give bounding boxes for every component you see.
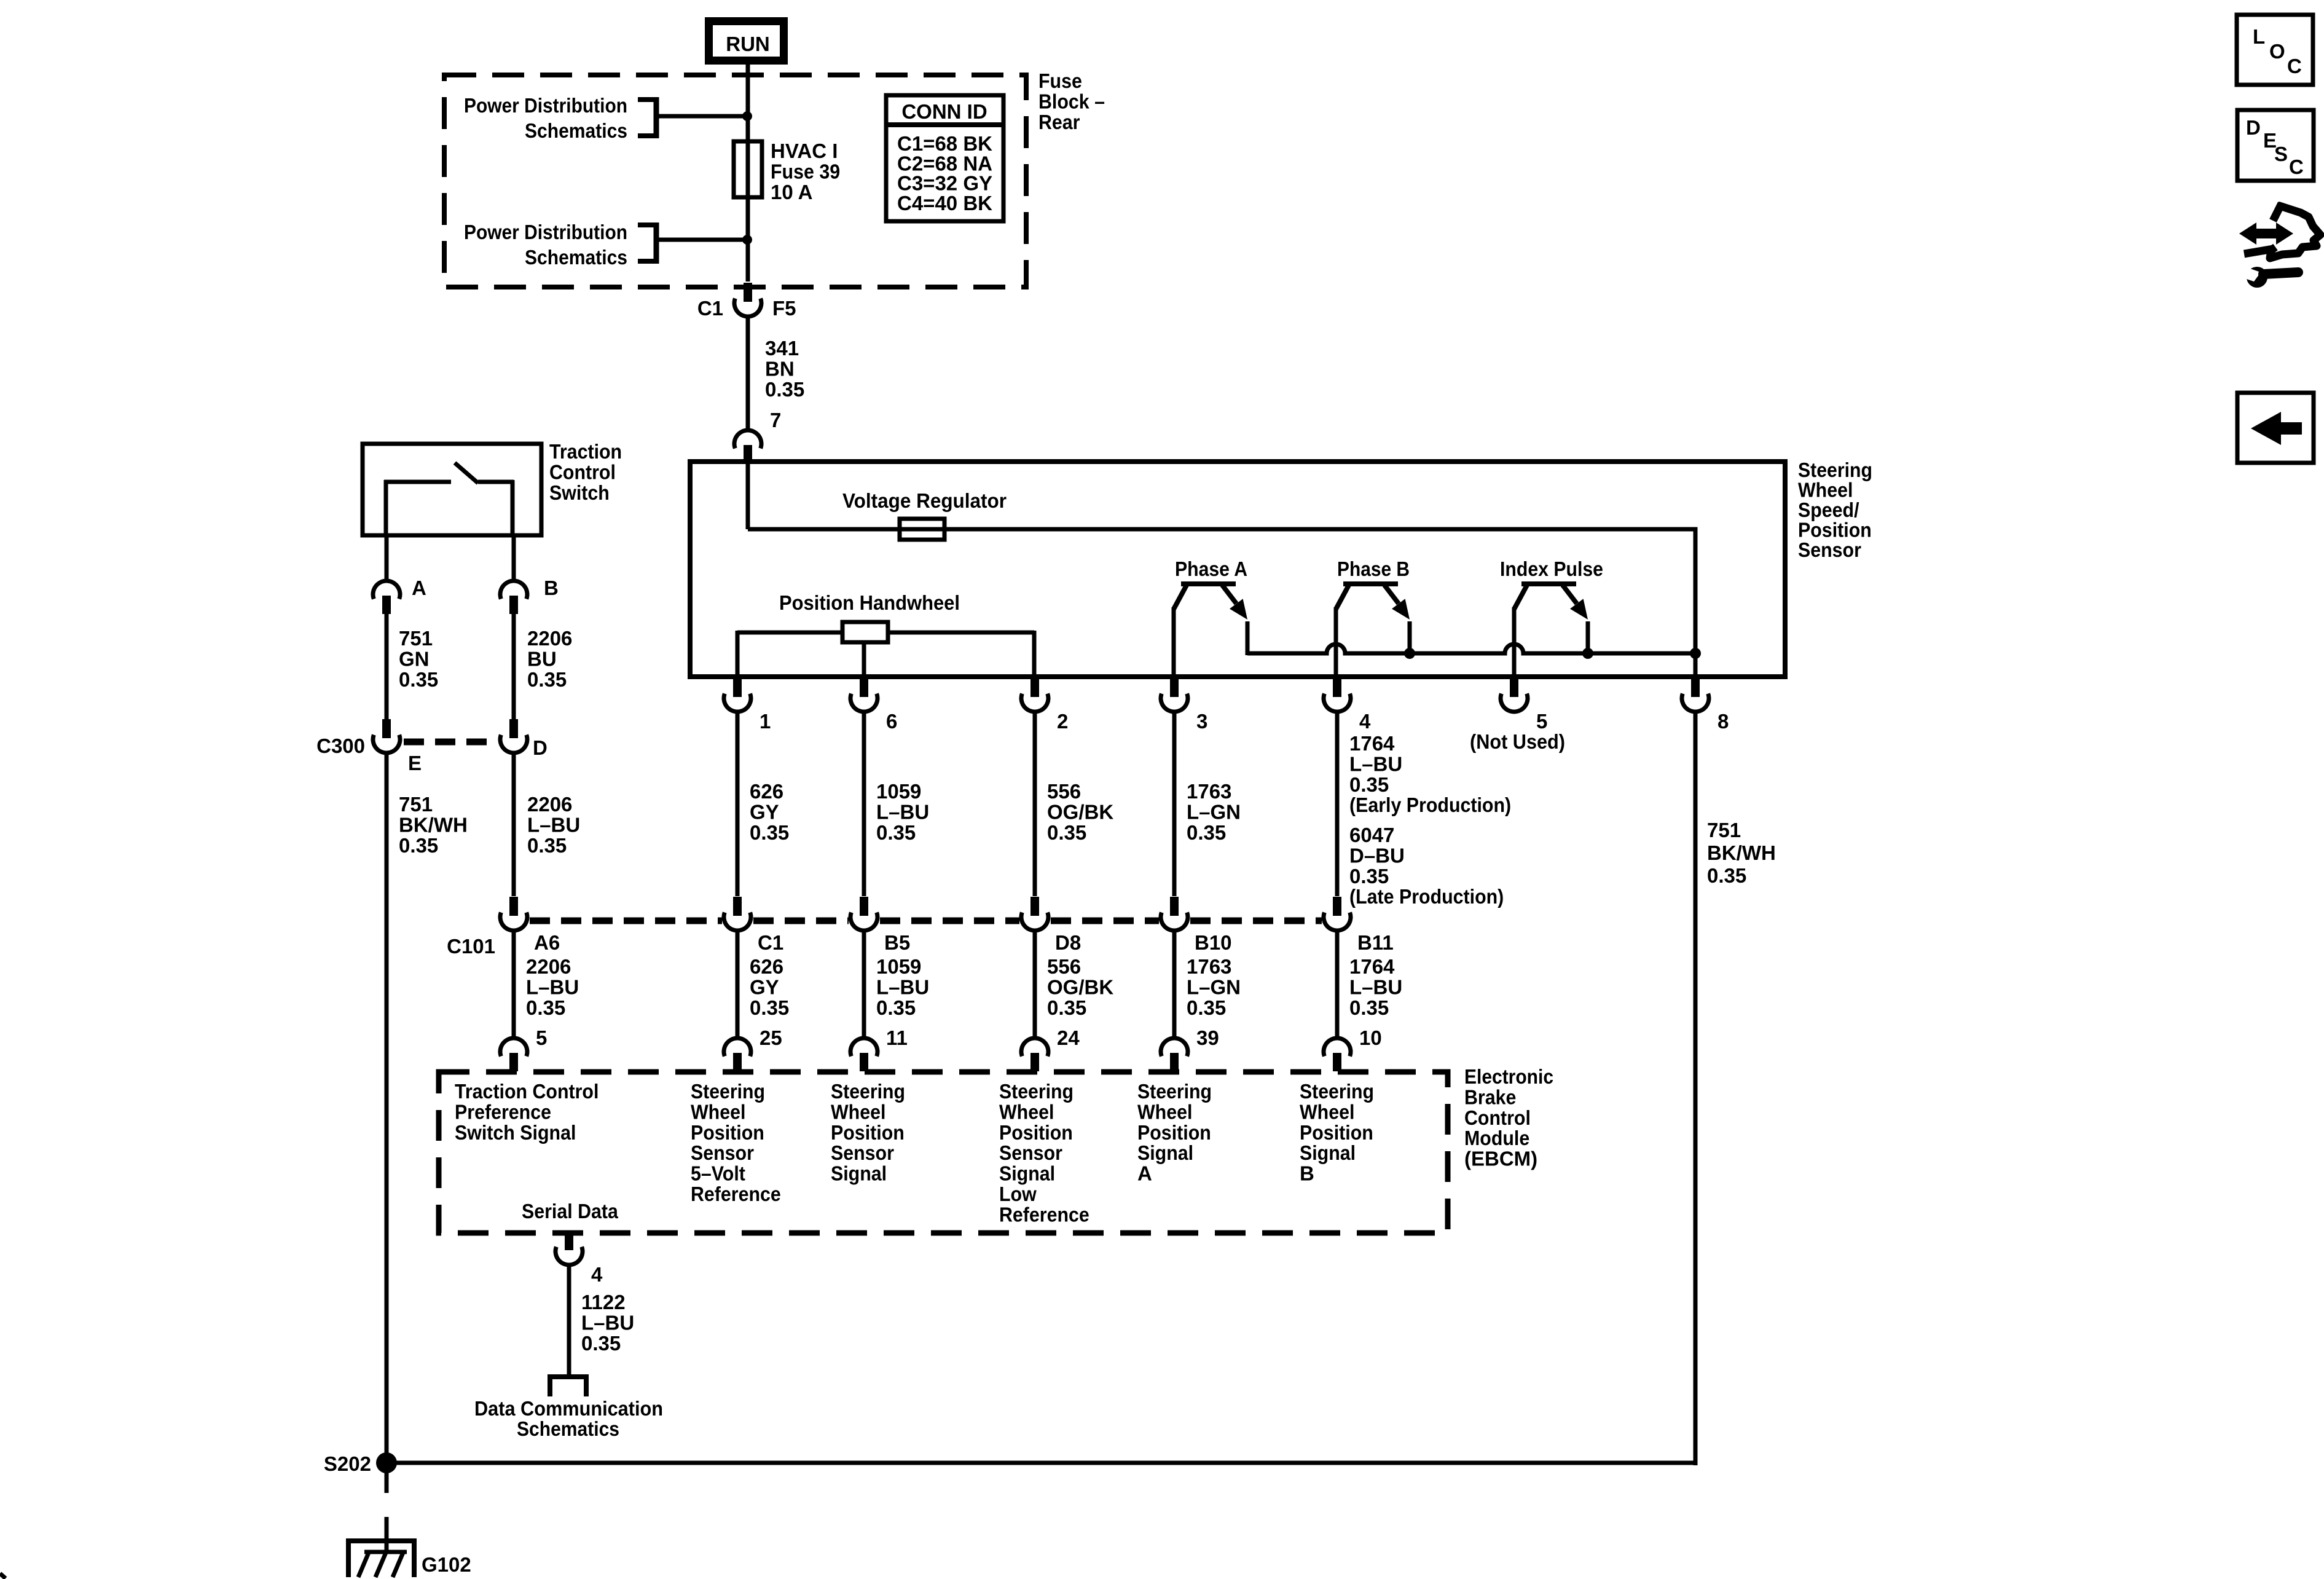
svg-text:Reference: Reference — [691, 1183, 781, 1205]
svg-text:5: 5 — [536, 1026, 547, 1049]
svg-text:6: 6 — [886, 710, 897, 733]
svg-text:E: E — [408, 752, 422, 774]
svg-text:B: B — [1300, 1162, 1314, 1185]
svg-text:1764: 1764 — [1349, 955, 1395, 978]
svg-text:0.35: 0.35 — [1349, 773, 1389, 796]
svg-text:626: 626 — [750, 780, 783, 803]
svg-text:24: 24 — [1057, 1026, 1080, 1049]
svg-text:GY: GY — [750, 975, 779, 998]
svg-text:O: O — [2269, 40, 2285, 63]
svg-text:1122: 1122 — [581, 1291, 626, 1313]
svg-text:25: 25 — [760, 1026, 782, 1049]
svg-text:GN: GN — [399, 647, 430, 670]
svg-text:Data Communication: Data Communication — [474, 1397, 663, 1420]
svg-text:0.35: 0.35 — [527, 834, 567, 857]
svg-text:G102: G102 — [422, 1553, 471, 1576]
svg-text:GY: GY — [750, 800, 779, 823]
svg-text:(EBCM): (EBCM) — [1464, 1148, 1537, 1170]
svg-text:Steering: Steering — [1798, 459, 1872, 481]
svg-text:Steering: Steering — [1137, 1080, 1212, 1103]
svg-text:Signal: Signal — [1137, 1141, 1193, 1164]
svg-text:Wheel: Wheel — [1798, 479, 1853, 502]
svg-text:(Not Used): (Not Used) — [1470, 730, 1565, 753]
svg-text:S202: S202 — [324, 1452, 371, 1475]
svg-text:Schematics: Schematics — [517, 1417, 619, 1440]
svg-text:0.35: 0.35 — [1187, 996, 1226, 1019]
svg-text:1059: 1059 — [876, 780, 921, 803]
svg-text:Switch Signal: Switch Signal — [455, 1121, 576, 1144]
svg-text:A: A — [1137, 1162, 1152, 1185]
svg-text:OG/BK: OG/BK — [1047, 975, 1113, 998]
svg-text:0.35: 0.35 — [399, 834, 438, 857]
svg-text:Steering: Steering — [999, 1080, 1074, 1103]
svg-text:Fuse 39: Fuse 39 — [771, 160, 840, 183]
svg-text:BK/WH: BK/WH — [1707, 841, 1776, 864]
svg-text:Preference: Preference — [455, 1100, 551, 1123]
svg-text:Control: Control — [1464, 1106, 1531, 1129]
svg-text:L–BU: L–BU — [527, 813, 580, 836]
svg-text:B: B — [544, 577, 559, 599]
svg-text:D: D — [533, 736, 548, 759]
svg-text:L–BU: L–BU — [526, 975, 579, 998]
svg-text:OG/BK: OG/BK — [1047, 800, 1113, 823]
svg-text:Fuse: Fuse — [1038, 69, 1082, 92]
svg-text:Speed/: Speed/ — [1798, 498, 1859, 521]
svg-text:Steering: Steering — [691, 1080, 765, 1103]
svg-text:C1: C1 — [697, 297, 723, 320]
svg-text:0.35: 0.35 — [1187, 821, 1226, 844]
svg-text:L–BU: L–BU — [1349, 975, 1402, 998]
svg-text:Serial Data: Serial Data — [522, 1200, 618, 1223]
svg-text:L–GN: L–GN — [1187, 975, 1241, 998]
svg-text:Wheel: Wheel — [691, 1100, 745, 1123]
svg-text:1764: 1764 — [1349, 732, 1395, 755]
svg-text:Wheel: Wheel — [831, 1100, 885, 1123]
svg-text:L–BU: L–BU — [876, 975, 929, 998]
svg-text:0.35: 0.35 — [1047, 996, 1086, 1019]
svg-text:0.35: 0.35 — [1349, 996, 1389, 1019]
svg-text:Electronic: Electronic — [1464, 1065, 1553, 1088]
svg-text:0.35: 0.35 — [750, 996, 789, 1019]
svg-text:C4=40 BK: C4=40 BK — [897, 192, 992, 215]
svg-text:Brake: Brake — [1464, 1085, 1516, 1108]
svg-text:S: S — [2274, 143, 2288, 165]
svg-text:751: 751 — [399, 793, 433, 816]
svg-text:Position: Position — [1798, 519, 1872, 541]
svg-text:1763: 1763 — [1187, 955, 1231, 978]
svg-text:341: 341 — [765, 337, 799, 360]
svg-text:0.35: 0.35 — [1707, 864, 1746, 887]
svg-text:L–GN: L–GN — [1187, 800, 1241, 823]
svg-text:Sensor: Sensor — [1798, 538, 1861, 561]
svg-text:Wheel: Wheel — [1300, 1100, 1354, 1123]
svg-text:BN: BN — [765, 357, 795, 380]
svg-text:Power Distribution: Power Distribution — [464, 221, 627, 243]
svg-text:A6: A6 — [534, 931, 560, 954]
svg-text:D8: D8 — [1055, 931, 1081, 954]
svg-text:0.35: 0.35 — [765, 378, 804, 401]
svg-text:Index Pulse: Index Pulse — [1500, 557, 1603, 580]
svg-text:626: 626 — [750, 955, 783, 978]
svg-text:Position: Position — [1137, 1121, 1211, 1144]
svg-text:0.35: 0.35 — [750, 821, 789, 844]
svg-text:L–BU: L–BU — [581, 1311, 634, 1334]
svg-text:1: 1 — [760, 710, 771, 733]
svg-text:Rear: Rear — [1038, 111, 1080, 133]
svg-text:Position: Position — [691, 1121, 764, 1144]
svg-text:L–BU: L–BU — [1349, 752, 1402, 775]
svg-text:11: 11 — [886, 1026, 908, 1049]
svg-text:L–BU: L–BU — [876, 800, 929, 823]
svg-text:Steering: Steering — [1300, 1080, 1374, 1103]
svg-text:C: C — [2287, 55, 2302, 77]
svg-text:10 A: 10 A — [771, 181, 812, 203]
svg-text:Position: Position — [1300, 1121, 1373, 1144]
svg-text:Position: Position — [999, 1121, 1073, 1144]
svg-text:CONN ID: CONN ID — [901, 100, 987, 123]
svg-text:751: 751 — [399, 627, 433, 650]
svg-text:Sensor: Sensor — [831, 1141, 894, 1164]
svg-text:Sensor: Sensor — [691, 1141, 754, 1164]
svg-text:B11: B11 — [1357, 931, 1394, 954]
svg-text:0.35: 0.35 — [876, 996, 916, 1019]
svg-text:L: L — [2253, 25, 2265, 48]
svg-text:2: 2 — [1057, 710, 1068, 733]
svg-text:Traction Control: Traction Control — [455, 1080, 599, 1103]
svg-text:8: 8 — [1717, 710, 1729, 733]
svg-text:7: 7 — [770, 409, 781, 431]
svg-text:C: C — [2289, 156, 2304, 178]
svg-text:5–Volt: 5–Volt — [691, 1162, 745, 1185]
svg-text:B10: B10 — [1195, 931, 1232, 954]
svg-text:Sensor: Sensor — [999, 1141, 1062, 1164]
svg-text:D–BU: D–BU — [1349, 844, 1405, 867]
svg-text:0.35: 0.35 — [399, 668, 438, 691]
svg-text:Voltage Regulator: Voltage Regulator — [842, 489, 1007, 512]
svg-text:2206: 2206 — [526, 955, 571, 978]
svg-text:5: 5 — [1536, 710, 1547, 733]
svg-text:Position Handwheel: Position Handwheel — [779, 591, 960, 614]
svg-text:Power Distribution: Power Distribution — [464, 94, 627, 117]
svg-text:556: 556 — [1047, 780, 1081, 803]
svg-text:6047: 6047 — [1349, 824, 1394, 846]
svg-text:4: 4 — [591, 1263, 603, 1286]
svg-text:B5: B5 — [884, 931, 910, 954]
svg-text:C1: C1 — [758, 931, 783, 954]
svg-text:0.35: 0.35 — [1349, 865, 1389, 888]
svg-text:10: 10 — [1359, 1026, 1382, 1049]
svg-text:0.35: 0.35 — [526, 996, 565, 1019]
svg-text:1763: 1763 — [1187, 780, 1231, 803]
svg-text:C101: C101 — [447, 935, 495, 958]
svg-text:556: 556 — [1047, 955, 1081, 978]
svg-text:D: D — [2246, 116, 2261, 139]
svg-text:HVAC I: HVAC I — [771, 140, 838, 162]
svg-text:Low: Low — [999, 1183, 1037, 1205]
svg-text:39: 39 — [1196, 1026, 1219, 1049]
svg-text:Wheel: Wheel — [1137, 1100, 1192, 1123]
svg-text:F5: F5 — [772, 297, 796, 320]
svg-text:2206: 2206 — [527, 627, 572, 650]
svg-text:Reference: Reference — [999, 1203, 1089, 1226]
svg-text:Signal: Signal — [999, 1162, 1055, 1185]
svg-text:4: 4 — [1359, 710, 1371, 733]
svg-text:Wheel: Wheel — [999, 1100, 1054, 1123]
svg-text:Traction: Traction — [549, 440, 622, 463]
svg-text:Signal: Signal — [1300, 1141, 1356, 1164]
svg-text:0.35: 0.35 — [581, 1332, 621, 1355]
svg-text:(Early Production): (Early Production) — [1349, 793, 1511, 816]
svg-text:Schematics: Schematics — [525, 246, 627, 269]
svg-text:0.35: 0.35 — [1047, 821, 1086, 844]
svg-text:0.35: 0.35 — [876, 821, 916, 844]
svg-text:Control: Control — [549, 460, 616, 483]
svg-text:(Late Production): (Late Production) — [1349, 885, 1504, 908]
svg-text:A: A — [412, 577, 426, 599]
svg-text:BU: BU — [527, 647, 557, 670]
svg-text:C300: C300 — [316, 734, 365, 757]
svg-text:Schematics: Schematics — [525, 119, 627, 142]
svg-text:Position: Position — [831, 1121, 905, 1144]
svg-text:Steering: Steering — [831, 1080, 905, 1103]
svg-text:Signal: Signal — [831, 1162, 887, 1185]
svg-text:Switch: Switch — [549, 481, 610, 504]
svg-text:1059: 1059 — [876, 955, 921, 978]
svg-text:0.35: 0.35 — [527, 668, 567, 691]
svg-text:Block –: Block – — [1038, 90, 1105, 112]
svg-text:2206: 2206 — [527, 793, 572, 816]
svg-text:751: 751 — [1707, 819, 1741, 841]
svg-text:BK/WH: BK/WH — [399, 813, 468, 836]
svg-text:Phase B: Phase B — [1337, 557, 1410, 580]
svg-text:3: 3 — [1196, 710, 1207, 733]
svg-text:Phase A: Phase A — [1175, 557, 1247, 580]
svg-text:RUN: RUN — [726, 33, 770, 55]
svg-text:Module: Module — [1464, 1127, 1529, 1149]
